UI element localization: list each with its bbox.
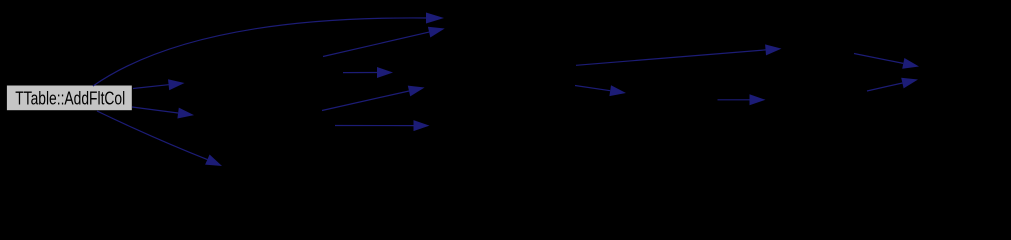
arrowhead E13 <box>901 78 918 89</box>
edge E12 <box>854 54 903 64</box>
edge E11 <box>718 99 750 101</box>
edge E13 <box>867 83 902 91</box>
arrowhead E10 <box>609 85 626 96</box>
edge E3 <box>132 107 178 113</box>
arrowhead E6 <box>377 67 393 78</box>
edges <box>93 18 903 160</box>
arrowhead E4 <box>205 155 222 167</box>
edge E9 <box>576 50 766 65</box>
arrowhead E3 <box>177 108 194 119</box>
arrowhead E11 <box>750 94 766 105</box>
edge E1 curve <box>93 18 426 86</box>
edge E10 <box>575 86 610 91</box>
arrowhead E1 <box>426 13 444 24</box>
edge E8 <box>335 125 414 127</box>
edge E4 <box>97 111 207 160</box>
arrowhead E12 <box>902 58 919 69</box>
edge E7 <box>322 91 409 111</box>
edge E2 <box>133 85 169 89</box>
arrowheads <box>168 13 919 167</box>
edge E5 <box>323 32 429 56</box>
node TTable::AddFltCol <box>6 85 132 111</box>
arrowhead E8 <box>414 120 430 131</box>
arrowhead E7 <box>408 86 425 97</box>
arrowhead E2 <box>168 79 185 90</box>
arrowhead E9 <box>765 44 781 55</box>
arrowhead E5 <box>428 27 445 38</box>
edge E6 <box>343 72 377 74</box>
svg-text:TTable::AddFltCol: TTable::AddFltCol <box>15 88 125 108</box>
